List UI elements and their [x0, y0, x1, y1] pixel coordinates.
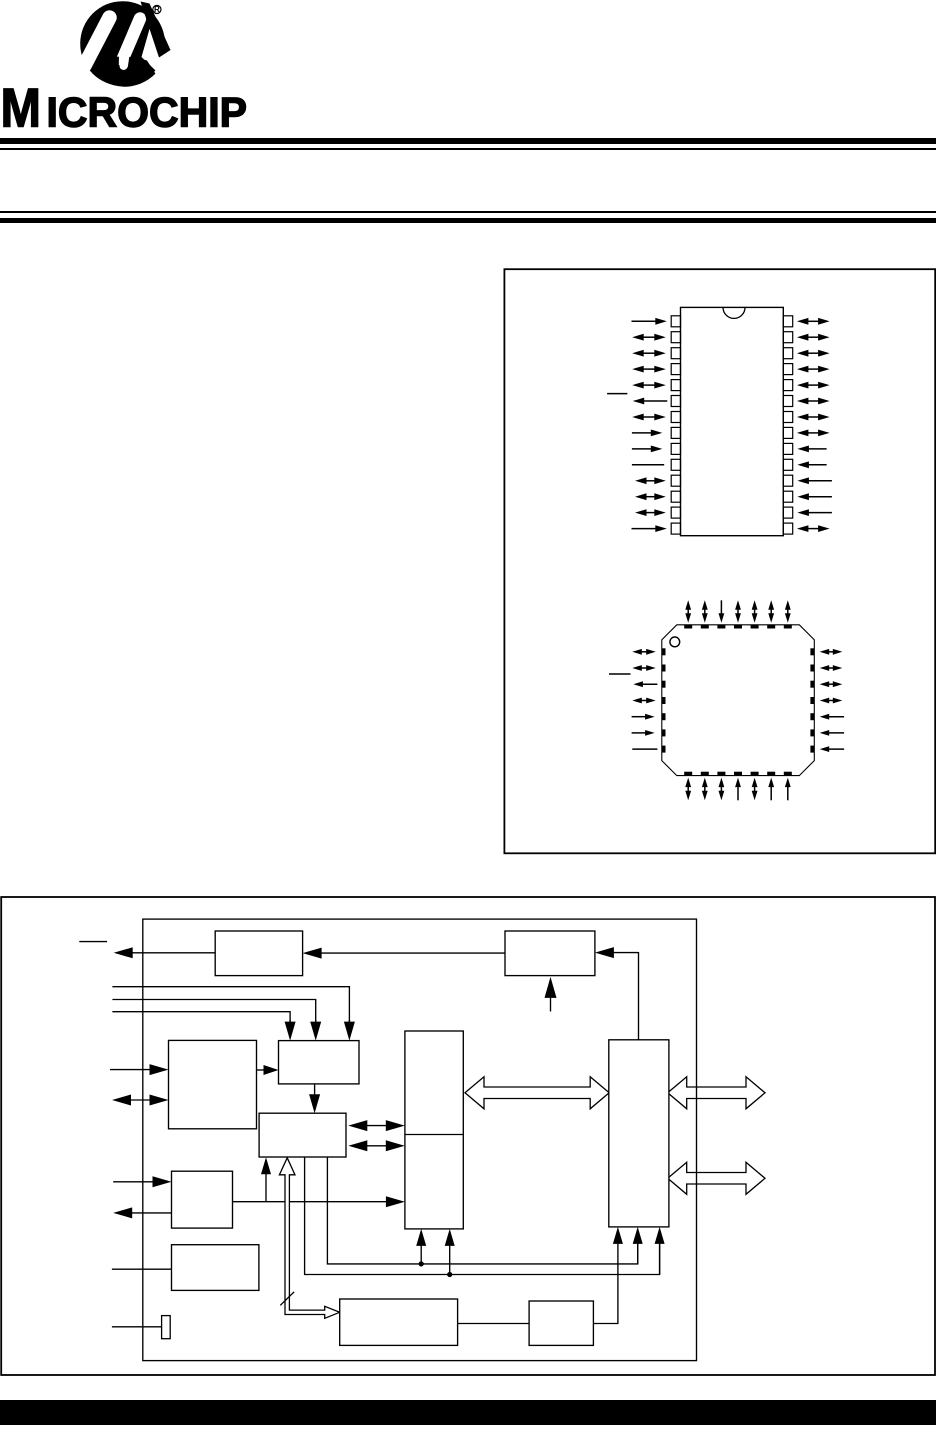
DIP left pin 10 signal arrow: [632, 464, 664, 466]
wire: up into box7 bottom right: [449, 1244, 451, 1275]
DIP pin 2 (left): [671, 332, 680, 343]
QFP bottom pin pad 1: [684, 772, 692, 776]
QFP left pin 7 signal arrow: [632, 748, 657, 750]
QFP right pin 1 signal arrow: [827, 651, 835, 653]
QFP bottom pin 1 signal arrow: [687, 785, 689, 793]
DIP right pin 25 signal arrow: [806, 368, 820, 370]
DIP right pin 26 signal arrow: [806, 352, 820, 354]
DIP pin 16 (right): [783, 507, 792, 518]
DIP left pin 9 signal arrow: [632, 448, 653, 450]
QFP left pin pad 7: [662, 746, 666, 753]
DIP right pin 21 signal arrow: [806, 432, 820, 434]
MICROCHIP wordmark: [1, 77, 248, 139]
DIP pin 19 (right): [783, 459, 792, 470]
wire: box8 top to box2 right with arrow: [595, 947, 639, 1040]
footer bar: [0, 1400, 936, 1425]
DIP pin 24 (right): [783, 380, 792, 391]
DIP pin 23 (right): [783, 396, 792, 407]
QFP/PLCC package body U2: [662, 625, 815, 776]
QFP bottom pin pad 6: [767, 772, 775, 776]
wire: bus arrow up into box2 bottom: [550, 996, 552, 1012]
DIP left pin 14 signal arrow: [632, 528, 658, 530]
DIP right pin 22 signal arrow: [806, 416, 820, 418]
DIP pin 3 (left): [671, 348, 680, 359]
QFP bottom pin 3 signal arrow: [720, 785, 722, 793]
QFP left pin 5 signal arrow: [632, 716, 648, 718]
QFP top pin pad 7: [784, 625, 792, 629]
QFP right pin pad 7: [810, 746, 814, 753]
QFP bottom pin 2 signal arrow: [704, 785, 706, 793]
DIP pin 14 (left): [671, 523, 680, 534]
QFP top pin pad 1: [684, 625, 692, 629]
DIP pin 5 (left): [671, 380, 680, 391]
QFP top pin 5 signal arrow: [754, 608, 756, 616]
QFP right pin pad 4: [810, 697, 814, 704]
QFP right pin pad 6: [810, 729, 814, 736]
DIP pin 10 (left): [671, 459, 680, 470]
QFP top pin pad 5: [751, 625, 759, 629]
wire: input line 1 to box5: [112, 987, 349, 1022]
DIP left pin 8 signal arrow: [632, 432, 653, 434]
DIP right pin 24 signal arrow: [806, 384, 820, 386]
DIP left pin 2 signal arrow: [642, 336, 657, 338]
QFP right pin 7 signal arrow: [827, 748, 844, 750]
box2 program counter block: [505, 931, 595, 976]
DIP right pin 16 signal arrow: [807, 512, 832, 514]
bus width slash tick: [280, 1292, 294, 1305]
DIP left pin 1 signal arrow: [632, 320, 658, 322]
box1 timer/reset block: [215, 931, 302, 976]
DIP right pin 17 signal arrow: [807, 496, 832, 498]
QFP top pin pad 4: [734, 625, 742, 629]
DIP left pin 3 signal arrow: [642, 352, 657, 354]
wire: up into box7 bottom left: [420, 1244, 422, 1264]
DIP left pin 13 signal arrow: [645, 512, 657, 514]
wire: bidirectional port arrow at box4: [129, 1099, 152, 1101]
DIP pin 26 (right): [783, 348, 792, 359]
wire: box5 down to box6: [314, 1084, 316, 1096]
DIP pin 1 (left): [671, 316, 680, 327]
pin diagram figure box: [0, 0, 936, 880]
QFP top pin 1 signal arrow: [687, 608, 689, 616]
wire: box4 to box5 arrow: [257, 1069, 266, 1071]
DIP right pin 27 signal arrow: [806, 336, 820, 338]
QFP right pin 5 signal arrow: [827, 716, 844, 718]
Microchip logo: [0, 0, 280, 135]
DIP pin 21 (right): [783, 427, 792, 438]
QFP bottom pin pad 7: [784, 772, 792, 776]
DIP left pin 7 signal arrow: [642, 416, 657, 418]
box5 stack block: [279, 1041, 360, 1084]
junction dot on bus line 2: [447, 1272, 452, 1277]
QFP right pin pad 1: [810, 648, 814, 655]
logo emblem circle: [80, 1, 170, 86]
header rule thin lower: [0, 211, 936, 213]
box8 I/O ports block: [609, 1040, 669, 1227]
wire: box11 to box12: [458, 1323, 529, 1325]
box4 EPROM program memory block: [169, 1040, 257, 1128]
oscillator pin rectangle: [112, 1316, 170, 1339]
wire: port bus right upper: [668, 1077, 765, 1109]
QFP right pin pad 5: [810, 713, 814, 720]
QFP left pin pad 3: [662, 681, 666, 688]
QFP left pin pad 1: [662, 648, 666, 655]
wire: into box9 from left: [113, 1181, 154, 1183]
QFP bottom pin pad 5: [751, 772, 759, 776]
QFP top pin 4 signal arrow: [737, 608, 739, 616]
DIP left pin 11 signal arrow: [645, 480, 657, 482]
DIP pin 27 (right): [783, 332, 792, 343]
QFP right pin pad 2: [810, 665, 814, 672]
DIP right pin 18 signal arrow: [807, 480, 832, 482]
DIP left pin 12 signal arrow: [645, 496, 657, 498]
wire: into box4 from left: [110, 1069, 152, 1071]
DIP right pin 19 signal arrow: [807, 464, 827, 466]
DIP package body U1: [681, 307, 784, 535]
QFP top pin 7 signal arrow: [787, 608, 789, 616]
MCLR overbar (DIP): [607, 393, 627, 395]
header rule thick lower: [0, 218, 936, 223]
QFP right pin 3 signal arrow: [827, 683, 835, 685]
wire: bus line 1 from box6 to box7/box8: [327, 1157, 637, 1264]
wire: port bus right lower: [668, 1162, 765, 1194]
arrowhead into box5 top at x=290.1: [289, 1020, 291, 1024]
wire: input line 2 to box5: [112, 1000, 315, 1023]
header rule thick upper: [0, 138, 936, 144]
QFP top pin 3 signal arrow: [720, 600, 722, 615]
wire: branch up into box6 bottom: [265, 1172, 267, 1202]
box7 RAM file registers block: [405, 1031, 463, 1229]
wire: box6-box7 double arrow upper: [365, 1125, 388, 1127]
DIP pin 25 (right): [783, 364, 792, 375]
QFP bottom pin 6 signal arrow: [770, 785, 772, 800]
box10 timer block: [172, 1245, 259, 1291]
QFP right pin 6 signal arrow: [827, 732, 844, 734]
DIP pin 18 (right): [783, 475, 792, 486]
DIP pin 17 (right): [783, 491, 792, 502]
wire: box1 output to left edge with arrow: [131, 952, 216, 954]
DIP right pin 20 signal arrow: [807, 448, 827, 450]
DIP pin 4 (left): [671, 364, 680, 375]
QFP bottom pin 7 signal arrow: [787, 785, 789, 800]
block diagram outer frame: [1, 897, 935, 1375]
registered trademark symbol: [153, 5, 161, 14]
DIP left pin 6 signal arrow: [642, 400, 667, 402]
QFP top pin pad 2: [701, 625, 709, 629]
wire: data bus between box7 and box8: [465, 1077, 609, 1109]
wire: box6-box7 double arrow lower: [365, 1145, 388, 1147]
QFP right pin pad 3: [810, 681, 814, 688]
QFP bottom pin pad 4: [734, 772, 742, 776]
wire: box9 to box7 with arrow: [233, 1201, 388, 1203]
junction dot on bus line 1: [419, 1261, 424, 1266]
QFP left pin 4 signal arrow: [640, 700, 648, 702]
wire: box12 up into box8 bottom: [593, 1236, 618, 1324]
QFP right pin 2 signal arrow: [827, 667, 835, 669]
QFP top pin 6 signal arrow: [770, 608, 772, 616]
DIP right pin 28 signal arrow: [806, 320, 820, 322]
DIP pin 13 (left): [671, 507, 680, 518]
block diagram inner frame: [143, 919, 697, 1361]
DIP pin 11 (left): [671, 475, 680, 486]
QFP top pin pad 6: [767, 625, 775, 629]
DIP pin 9 (left): [671, 443, 680, 454]
DIP left pin 4 signal arrow: [642, 368, 657, 370]
QFP bottom pin pad 2: [701, 772, 709, 776]
hollow program bus arrow from box11 to box6: [279, 1158, 339, 1319]
DIP pin 8 (left): [671, 427, 680, 438]
DIP pin 7 (left): [671, 412, 680, 423]
arrowhead into box5 top at x=315.7: [315, 1020, 317, 1024]
QFP left pin pad 2: [662, 665, 666, 672]
wire: box2 to box1 with arrow: [320, 952, 505, 954]
DIP left pin 5 signal arrow: [642, 384, 657, 386]
box9 I/O port block: [172, 1171, 233, 1228]
wire: into box10 from left: [112, 1268, 172, 1270]
box6 instruction register block: [259, 1113, 346, 1157]
DIP right pin 23 signal arrow: [806, 400, 820, 402]
DIP right pin 15 signal arrow: [806, 528, 820, 530]
wire: up into box8 bottom (from bus line 1): [637, 1242, 639, 1264]
wire: up into box8 bottom (from bus line 2): [659, 1242, 661, 1275]
QFP left pin 2 signal arrow: [640, 667, 648, 669]
arrowhead into box5 top at x=349.4: [348, 1020, 350, 1024]
MCLR overbar (QFP): [609, 673, 631, 675]
QFP right pin 4 signal arrow: [827, 700, 835, 702]
QFP bottom pin 4 signal arrow: [737, 785, 739, 800]
wire: box9 output to left: [130, 1212, 171, 1214]
QFP left pin 6 signal arrow: [632, 732, 648, 734]
QFP left pin pad 4: [662, 697, 666, 704]
wire: bus line 2 from box6 to box7/box8: [305, 1157, 660, 1275]
QFP left pin pad 5: [662, 713, 666, 720]
QFP left pin pad 6: [662, 729, 666, 736]
QFP left pin 1 signal arrow: [640, 651, 648, 653]
DIP pin 15 (right): [783, 523, 792, 534]
QFP left pin 3 signal arrow: [641, 683, 658, 685]
header rule thin upper: [0, 148, 936, 150]
DIP pin 12 (left): [671, 491, 680, 502]
box11 instruction decode block: [340, 1299, 458, 1345]
wire: input line 3 to box5: [112, 1012, 290, 1022]
QFP bottom pin pad 3: [717, 772, 725, 776]
DIP pin 28 (right): [783, 316, 792, 327]
box12 control block: [529, 1301, 593, 1345]
DIP pin 6 (left): [671, 396, 680, 407]
wire: reset line overbar label: [79, 941, 107, 943]
DIP pin 20 (right): [783, 443, 792, 454]
DIP pin 22 (right): [783, 412, 792, 423]
QFP bottom pin 5 signal arrow: [754, 785, 756, 793]
QFP top pin pad 3: [717, 625, 725, 629]
QFP top pin 2 signal arrow: [704, 608, 706, 616]
QFP pin 1 indicator: [670, 637, 680, 647]
